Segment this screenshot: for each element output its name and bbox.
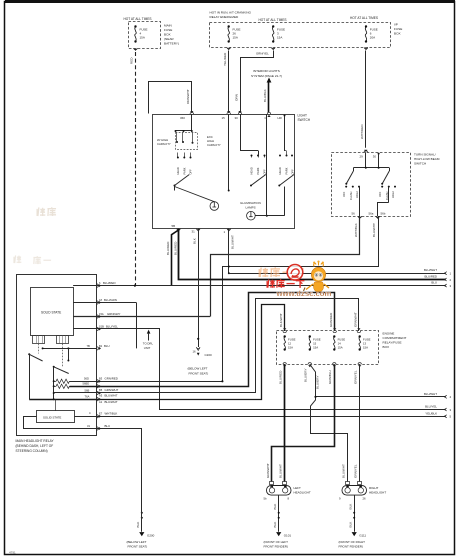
- svg-text:BLU/WHT: BLU/WHT: [424, 268, 437, 272]
- wire BLU/WHT row to right connector pin 1: [229, 268, 446, 273]
- svg-text:BLK: BLK: [192, 237, 196, 244]
- svg-text:I/P: I/P: [394, 23, 398, 27]
- page number: [9, 551, 16, 555]
- watermark dzsc logo and text: [259, 261, 331, 299]
- svg-text:15A: 15A: [363, 345, 368, 349]
- dimmer bottom terminal 56: [352, 212, 362, 220]
- svg-text:SYSTEM (PAGE 21-7): SYSTEM (PAGE 21-7): [251, 74, 282, 78]
- fuse 13 15A: [359, 335, 371, 350]
- svg-text:BLK: BLK: [349, 503, 353, 510]
- svg-text:WHT/BLK: WHT/BLK: [354, 222, 358, 237]
- svg-text:FRONT SEAT): FRONT SEAT): [128, 545, 148, 549]
- relay resistor 1: [54, 379, 97, 383]
- svg-text:56b: 56b: [381, 212, 386, 216]
- right connector pin 1: [444, 272, 451, 276]
- svg-text:29: 29: [360, 154, 364, 158]
- svg-text:SOLID STATE: SOLID STATE: [41, 311, 61, 315]
- svg-text:(FRONT OF LEFT: (FRONT OF LEFT: [264, 540, 289, 544]
- terminal S60: [180, 111, 194, 120]
- svg-text:26: 26: [363, 497, 367, 501]
- svg-text:B5: B5: [99, 388, 103, 392]
- ground G111 caption: [339, 540, 366, 549]
- wire BLU/WHT row to right pin 4: [314, 392, 445, 398]
- fuse 14 15A: [333, 335, 345, 350]
- relay row BLU/WHT2 to fuse 12 feed: [97, 305, 285, 404]
- relay terminal ids: [83, 344, 92, 428]
- svg-text:INTERIOR LIGHTS: INTERIOR LIGHTS: [253, 69, 280, 73]
- svg-text:5b: 5b: [264, 497, 268, 501]
- svg-text:BLU/RED: BLU/RED: [424, 275, 437, 279]
- svg-text:20A: 20A: [370, 36, 375, 40]
- svg-text:HIGH-LOW BEAM: HIGH-LOW BEAM: [414, 157, 440, 161]
- turn signal high-low beam switch box (dashed): [332, 153, 411, 217]
- svg-text:RELAY/FUSE: RELAY/FUSE: [383, 341, 402, 345]
- relay block2 input wire: [55, 399, 57, 411]
- dimmer contacts left: [345, 186, 360, 188]
- label turn signal switch: [414, 153, 440, 166]
- svg-text:15: 15: [222, 116, 226, 120]
- svg-text:BLU/RED: BLU/RED: [166, 241, 170, 255]
- svg-text:B3: B3: [99, 377, 103, 381]
- label HOT AT ALL TIMES (right): [350, 16, 378, 20]
- main headlight relay outer box: [17, 275, 97, 436]
- svg-text:OFF: OFF: [262, 169, 266, 175]
- svg-text:16: 16: [193, 350, 197, 354]
- dimmer internal wires to bottom terminals: [360, 187, 389, 216]
- svg-text:FLASH: FLASH: [349, 192, 353, 200]
- svg-text:RELAY ENERGIZED: RELAY ENERGIZED: [210, 15, 240, 19]
- ghost watermark smudge upper: [37, 207, 56, 216]
- svg-text:15A: 15A: [338, 345, 343, 349]
- svg-text:MAIN: MAIN: [164, 24, 172, 28]
- svg-text:BLU/RED: BLU/RED: [279, 370, 283, 384]
- illumination lamp 2: [247, 211, 256, 220]
- relay caption: [16, 439, 55, 453]
- ground G200: [139, 532, 154, 537]
- contacts in dashed block: [176, 133, 194, 144]
- relay contact pole stub: [67, 348, 69, 361]
- svg-text:BLU: BLU: [104, 344, 110, 348]
- arrow to interior lights system: [263, 78, 271, 113]
- svg-text:SOLID STATE: SOLID STATE: [43, 415, 61, 419]
- svg-text:HIGH: HIGH: [391, 191, 395, 198]
- svg-text:BLU/GRY: BLU/GRY: [315, 375, 319, 389]
- relay resistor 2: [54, 384, 97, 388]
- svg-text:BOX: BOX: [164, 33, 171, 37]
- terminal 58 (bottom): [172, 224, 181, 232]
- light switch internal top bus: [175, 114, 193, 132]
- svg-text:15A: 15A: [277, 36, 282, 40]
- svg-text:PARK: PARK: [182, 167, 186, 174]
- svg-text:56D: 56D: [84, 377, 89, 381]
- svg-text:LIGHT: LIGHT: [298, 114, 307, 118]
- wire BLU/WHT from dimmer 56a to node B: [223, 216, 379, 381]
- terminal 1 (bottom): [224, 229, 231, 235]
- ground G101: [276, 532, 291, 537]
- svg-text:YEL/RED: YEL/RED: [223, 52, 227, 66]
- left headlight terminal ids: [264, 497, 290, 501]
- svg-text:TURN SIGNAL/: TURN SIGNAL/: [414, 153, 436, 157]
- connector arcs into engine box: [283, 328, 361, 332]
- relay contact row wire 7B: [42, 347, 97, 349]
- svg-text:HIGH: HIGH: [355, 191, 359, 198]
- svg-text:56a: 56a: [369, 212, 374, 216]
- terminal 30: [235, 111, 242, 120]
- label LEFT HEADLIGHT: [294, 486, 311, 495]
- light switch internal dashed block: [176, 133, 198, 150]
- wire BLU/WHT light switch term 1 to C connector row: [228, 229, 235, 275]
- ground G111: [352, 532, 367, 537]
- svg-text:COMPARTMENT: COMPARTMENT: [383, 336, 407, 340]
- svg-text:15A: 15A: [313, 345, 318, 349]
- terminal C: [265, 112, 271, 120]
- wire from terminal C down to lamp node: [266, 114, 268, 216]
- ground G101 caption: [264, 540, 289, 549]
- labels HEAD PARK OFF (section 1): [176, 167, 193, 174]
- relay wire to term T6A thick: [29, 399, 96, 401]
- svg-text:BLU/WHT: BLU/WHT: [105, 393, 118, 397]
- relay coil tab 2: [57, 335, 69, 343]
- svg-text:31: 31: [192, 230, 196, 234]
- label GRN/RED wire into fuse 14: [329, 312, 333, 327]
- label LIGHT SWITCH: [298, 114, 311, 123]
- labels HEAD PARK OFF (section 2): [250, 167, 267, 174]
- svg-text:(NEAR: (NEAR: [164, 37, 174, 41]
- svg-text:UNIT: UNIT: [144, 346, 151, 350]
- svg-text:STEERING COLUMN): STEERING COLUMN): [16, 449, 48, 453]
- wire BLU/GRN corner down to BLU row: [136, 303, 138, 349]
- svg-text:HEAD: HEAD: [176, 167, 180, 174]
- wire BLU/RED from term 58 diagonal branch: [166, 230, 179, 286]
- svg-text:BLU/WHT: BLU/WHT: [105, 400, 118, 404]
- svg-text:GRN/WHT: GRN/WHT: [105, 388, 119, 392]
- svg-text:BLU/YEL: BLU/YEL: [106, 324, 118, 328]
- wire RED (dashed) from fuse 4 down to node R1: [130, 52, 136, 286]
- svg-text:PARK: PARK: [284, 167, 288, 174]
- left headlight housing: [267, 486, 292, 496]
- svg-text:BOX: BOX: [394, 32, 401, 36]
- right connector pin 3b: [444, 408, 451, 412]
- fuse 4 15A: [134, 25, 147, 42]
- svg-text:GRN/YEL: GRN/YEL: [354, 370, 358, 384]
- svg-text:GRN/YEL: GRN/YEL: [256, 52, 269, 56]
- svg-text:BLU/WHT: BLU/WHT: [341, 464, 345, 478]
- wire BLK light switch 31 to C200: [192, 229, 199, 348]
- dimmer contacts right: [381, 186, 396, 188]
- main fuse box (dashed): [129, 22, 161, 49]
- svg-text:E7: E7: [99, 412, 103, 416]
- node R1 junction dashed RED to BLU row: [134, 285, 136, 287]
- relay solid state block: [31, 288, 74, 336]
- svg-text:BLU/WHT: BLU/WHT: [372, 223, 376, 237]
- svg-text:A1: A1: [99, 400, 103, 404]
- dimmer bottom terminals 56a 56b: [369, 212, 386, 220]
- svg-text:RED: RED: [130, 57, 134, 64]
- left headlight low beam filament: [269, 485, 274, 493]
- light switch box: [153, 115, 295, 229]
- illumination lamp 1: [210, 202, 219, 211]
- svg-text:GRN/WHT: GRN/WHT: [353, 312, 357, 327]
- wire ORN/WHT from junction loop to light switch: [149, 82, 192, 114]
- svg-text:LEFT: LEFT: [294, 486, 302, 490]
- svg-text:FUSE: FUSE: [394, 27, 402, 31]
- wire GRN/YEL fuse 13 to right headlight: [354, 364, 360, 481]
- fuse 6 20A: [365, 25, 378, 42]
- relay block2 left wire to term 31: [24, 417, 97, 429]
- svg-text:30: 30: [235, 116, 239, 120]
- svg-text:(BELOW LEFT: (BELOW LEFT: [188, 367, 208, 371]
- svg-text:G200: G200: [147, 533, 155, 537]
- svg-text:FRONT FENDER): FRONT FENDER): [264, 545, 288, 549]
- label RIGHT HEADLIGHT: [369, 486, 386, 495]
- relay block2 right wire to term 4: [74, 416, 96, 418]
- relay row BLU/YEL: [73, 324, 446, 409]
- svg-text:BLU/RED: BLU/RED: [103, 281, 116, 285]
- label interior lights system: [251, 69, 282, 78]
- connector arcs out of engine box: [283, 363, 361, 368]
- C200 caption: [188, 367, 209, 376]
- dimmer blade right: [381, 168, 389, 185]
- svg-text:7B: 7B: [87, 344, 90, 348]
- right connector pin 5: [444, 415, 451, 419]
- connector under fuse 3: [272, 47, 275, 50]
- svg-text:31: 31: [87, 424, 90, 428]
- svg-text:(BEHIND DASH, LEFT OF: (BEHIND DASH, LEFT OF: [16, 444, 54, 448]
- svg-text:BLK: BLK: [273, 503, 277, 510]
- svg-text:BLU/GRY: BLU/GRY: [304, 368, 308, 382]
- svg-text:G101: G101: [284, 533, 292, 537]
- ground G200 caption: [127, 540, 148, 549]
- right headlight terminal ids: [339, 497, 366, 501]
- labels OFF FLASH HIGH (left): [342, 191, 359, 200]
- label HOT AT ALL TIMES (center): [259, 18, 287, 22]
- svg-text:HR: HR: [278, 116, 282, 120]
- connector under fuse 6: [364, 47, 367, 50]
- svg-text:OFF: OFF: [189, 169, 193, 175]
- wire BLU row relay A6 to right pin 3: [97, 281, 446, 286]
- label W/HIGH CAPACITY: [157, 138, 171, 146]
- relay actuator dashed link 2: [62, 344, 64, 367]
- svg-text:SWITCH: SWITCH: [298, 118, 311, 122]
- svg-text:15A: 15A: [233, 36, 238, 40]
- svg-text:BLU: BLU: [105, 424, 111, 428]
- svg-text:WHT/RED: WHT/RED: [360, 124, 364, 139]
- svg-text:T6A: T6A: [85, 395, 90, 399]
- I/P fuse box (dashed): [210, 23, 391, 48]
- svg-text:BLU/WHT: BLU/WHT: [231, 235, 235, 249]
- svg-text:GRN/YEL: GRN/YEL: [354, 464, 358, 478]
- wire GRN/YEL from fuse 3 jog: [234, 51, 273, 113]
- svg-text:MAIN HEADLIGHT RELAY: MAIN HEADLIGHT RELAY: [16, 439, 55, 443]
- svg-text:CAPACITY: CAPACITY: [157, 142, 171, 146]
- svg-text:HEAD: HEAD: [278, 167, 282, 174]
- relay row BLU to ground G200: [97, 424, 142, 511]
- svg-text:ORN/WHT: ORN/WHT: [186, 89, 190, 104]
- wire BLU/GRY fuse 15 out: [304, 364, 348, 481]
- svg-text:BLK/WHT: BLK/WHT: [279, 313, 283, 327]
- svg-text:FUSE: FUSE: [164, 28, 172, 32]
- connector under fuse 26: [227, 47, 230, 50]
- svg-text:GRN/GRY: GRN/GRY: [107, 312, 121, 316]
- svg-text:HEAD: HEAD: [250, 167, 254, 174]
- main fuse box caption: [164, 24, 179, 46]
- relay row GRN/GRY to node A: [73, 312, 210, 318]
- fuse 12 15A: [284, 335, 296, 350]
- left headlight ground wire BLK: [273, 495, 280, 532]
- svg-text:OFF: OFF: [342, 191, 346, 197]
- svg-text:C200: C200: [205, 353, 213, 357]
- svg-text:ORN: ORN: [234, 94, 238, 101]
- svg-text:BATTERY): BATTERY): [164, 42, 179, 46]
- svg-text:OFF: OFF: [291, 169, 295, 175]
- svg-text:HOT AT ALL TIMES: HOT AT ALL TIMES: [124, 17, 152, 21]
- svg-text:BLU/WHT: BLU/WHT: [424, 392, 437, 396]
- wire BLU/RED fuse 12 to left headlight high beam: [279, 364, 285, 481]
- svg-text:ENGINE: ENGINE: [383, 332, 395, 336]
- svg-text:BLU/GRN: BLU/GRN: [104, 298, 117, 302]
- relay row BLU/WHT to fuse 13 feed: [97, 299, 359, 398]
- right headlight ground wire BLK: [349, 495, 356, 532]
- svg-text:YEL/BLK: YEL/BLK: [425, 411, 437, 415]
- svg-text:BLU/YEL: BLU/YEL: [425, 405, 437, 409]
- svg-text:G111: G111: [359, 533, 366, 537]
- engine box caption: [383, 332, 407, 350]
- terminal 31 (bottom): [192, 229, 200, 234]
- relay row WHT/BLK to right pin 5: [97, 411, 446, 418]
- dimmer terminal 30: [373, 153, 380, 159]
- right headlight connector squares: [341, 464, 361, 485]
- switch section 1 stubs: [177, 153, 192, 159]
- svg-text:5B: 5B: [172, 224, 176, 228]
- svg-text:56: 56: [352, 212, 356, 216]
- labels HEAD PARK OFF (section 3): [278, 116, 295, 175]
- dimmer internal bus: [353, 152, 389, 169]
- labels OFF FLASH HIGH (right): [378, 191, 395, 200]
- wire GRN/BLU fuse 14 to left headlight low beam: [272, 364, 335, 481]
- engine compartment relay box (dashed): [277, 331, 379, 365]
- svg-text:15A: 15A: [288, 345, 293, 349]
- svg-text:LAMPS: LAMPS: [246, 206, 256, 210]
- svg-text:PARK: PARK: [256, 167, 260, 174]
- svg-text:B1: B1: [99, 344, 103, 348]
- svg-text:BLU: BLU: [431, 281, 437, 285]
- svg-text:BLK: BLK: [136, 521, 140, 528]
- label GRN/WHT wire into fuse 13: [353, 312, 357, 327]
- svg-text:HOT IN RUN, A/T CRANKING: HOT IN RUN, A/T CRANKING: [210, 11, 252, 15]
- label BLK/WHT wire into fuse 12: [279, 313, 283, 327]
- svg-text:BLU/WHT: BLU/WHT: [279, 464, 283, 478]
- svg-text:BLU/BLK: BLU/BLK: [263, 88, 267, 102]
- svg-text:CAPACITY: CAPACITY: [207, 143, 221, 147]
- wire YEL/RED from fuse 26 to light switch term 15: [223, 51, 229, 113]
- wire WHT/RED from fuse 6 to dimmer switch: [360, 51, 366, 148]
- dimmer blade left: [345, 168, 353, 185]
- right connector pin 4: [444, 395, 451, 399]
- svg-text:4791: 4791: [9, 551, 16, 555]
- svg-text:S1B: S1B: [99, 324, 104, 328]
- terminal HR: [278, 115, 286, 121]
- svg-text:56B: 56B: [85, 388, 90, 392]
- right headlight high beam filament: [358, 485, 363, 493]
- svg-text:GRN/RED: GRN/RED: [329, 312, 333, 327]
- right connector pin 3: [444, 284, 451, 288]
- right headlight housing: [342, 486, 367, 496]
- svg-text:BLK: BLK: [349, 521, 353, 528]
- relay row 58D stub: [73, 284, 101, 287]
- wire from terminal 15 down: [228, 114, 230, 192]
- relay row GRN/RED to node B: [97, 377, 224, 383]
- svg-text:GRN/WHT: GRN/WHT: [266, 463, 270, 478]
- relay switch blade 2: [53, 366, 69, 400]
- svg-text:HEADLIGHT: HEADLIGHT: [294, 491, 311, 495]
- left headlight high beam filament: [283, 485, 288, 493]
- relay row BLU/GRN: [73, 298, 136, 304]
- svg-text:15A: 15A: [140, 36, 145, 40]
- fuse 3 15A: [272, 25, 285, 42]
- relay wire to term 56B: [54, 392, 97, 394]
- switch section 2 stubs: [240, 114, 266, 158]
- svg-text:15A: 15A: [99, 312, 104, 316]
- switch section 1 to lamps bus: [175, 187, 215, 202]
- fuse 26 15A: [228, 25, 241, 42]
- to DRL unit arrow: [143, 330, 154, 350]
- svg-text:HOT AT ALL TIMES: HOT AT ALL TIMES: [350, 16, 378, 20]
- svg-text:GRN/RED: GRN/RED: [105, 377, 118, 381]
- relay solid state block 2: [37, 411, 75, 423]
- relay coil tab 1: [33, 335, 45, 343]
- G200 wire connector dots: [136, 511, 143, 532]
- svg-text:OFF: OFF: [378, 191, 382, 197]
- svg-text:BLU/RED: BLU/RED: [173, 241, 177, 255]
- svg-text:ILLUMINATION: ILLUMINATION: [240, 201, 261, 205]
- switch blade 3: [278, 175, 294, 216]
- relay actuator dashed link 1: [38, 344, 40, 354]
- wire BLU/RED thick from light switch term 58 branch: [173, 229, 446, 280]
- I/P fuse box caption: [394, 23, 402, 36]
- left headlight connector squares: [266, 463, 287, 484]
- fuse 15 15A: [309, 335, 321, 350]
- relay row GRN/WHT thick to fuse 14 feed: [97, 293, 335, 392]
- dimmer terminal 29: [360, 150, 368, 159]
- svg-text:FRONT SEAT): FRONT SEAT): [189, 372, 209, 376]
- svg-text:SWITCH: SWITCH: [414, 161, 426, 165]
- terminal 15: [222, 111, 231, 120]
- svg-text:WHT/BLK: WHT/BLK: [105, 412, 118, 416]
- svg-text:RIGHT: RIGHT: [369, 486, 379, 490]
- svg-text:FRONT FENDER): FRONT FENDER): [339, 545, 363, 549]
- svg-text:HEADLIGHT: HEADLIGHT: [369, 491, 386, 495]
- lamp 2 wire to node: [255, 215, 284, 217]
- right headlight low beam filament: [345, 485, 350, 493]
- switch blade 2: [250, 175, 266, 187]
- svg-text:30: 30: [373, 154, 377, 158]
- svg-text:BLK: BLK: [273, 521, 277, 528]
- svg-text:BOX: BOX: [383, 345, 390, 349]
- svg-text:(FRONT OF RIGHT: (FRONT OF RIGHT: [339, 540, 366, 544]
- right connector pin 2: [444, 278, 451, 282]
- connector C200: [193, 347, 213, 357]
- label EXC HIGH CAPACITY: [207, 135, 221, 147]
- relay switch blade 1: [28, 353, 42, 399]
- label ILLUMINATION LAMPS: [240, 201, 261, 210]
- svg-text:HOT AT ALL TIMES: HOT AT ALL TIMES: [259, 18, 287, 22]
- svg-text:360: 360: [180, 116, 185, 120]
- svg-text:GRN/BLU: GRN/BLU: [328, 370, 332, 384]
- ghost watermark smudge lower: [14, 255, 51, 264]
- switch blade 1: [174, 175, 190, 191]
- svg-text:(BELOW LEFT: (BELOW LEFT: [127, 540, 147, 544]
- label HOT IN RUN relay energized: [210, 11, 252, 20]
